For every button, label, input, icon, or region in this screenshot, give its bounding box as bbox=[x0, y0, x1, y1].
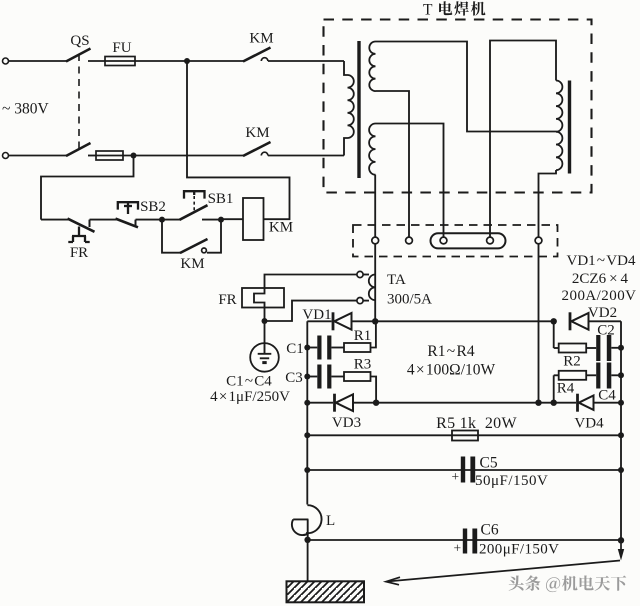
svg-text:R3: R3 bbox=[354, 357, 372, 373]
node C3 tap bbox=[304, 374, 310, 380]
svg-text:~ 380V: ~ 380V bbox=[2, 101, 50, 118]
svg-text:C3: C3 bbox=[285, 370, 303, 386]
label watermark 头条 @机电天下 (glyph outlines) bbox=[509, 575, 627, 592]
node C5 left bbox=[304, 467, 310, 473]
wire L2 to QS bbox=[9, 155, 67, 157]
svg-text:R2: R2 bbox=[563, 354, 581, 370]
wire QS to FU2 bbox=[88, 155, 96, 157]
transformer secondary upper winding bbox=[369, 42, 375, 92]
wire R2 branch from top node bbox=[553, 321, 555, 348]
capacitor C1 bbox=[317, 336, 331, 360]
svg-text:KM: KM bbox=[245, 125, 269, 141]
resistor R3 bbox=[344, 372, 371, 381]
wire QS to FU bbox=[88, 60, 105, 62]
switch QS pole 2 blade bbox=[66, 143, 91, 156]
node B bbox=[218, 217, 224, 223]
svg-text:T: T bbox=[423, 2, 433, 19]
node A bbox=[159, 217, 165, 223]
ground (case earthing symbol in circle) bbox=[250, 343, 279, 372]
svg-text:SB1: SB1 bbox=[208, 191, 234, 207]
node junction row1 bbox=[184, 58, 190, 64]
pushbutton SB1 (NO) blade bbox=[180, 205, 208, 220]
wire terminal 5 down to bottom rectifier rail bbox=[538, 244, 540, 403]
wire R2 to C2 bbox=[586, 347, 596, 349]
wire C5 row bbox=[307, 469, 621, 471]
capacitor C5 (electrolytic) bbox=[461, 457, 475, 483]
svg-text:QS: QS bbox=[70, 33, 89, 49]
wire VD2 to right rail corner bbox=[589, 320, 622, 322]
capacitor C6 (electrolytic) bbox=[463, 529, 477, 554]
wire KM aux branch right bbox=[207, 220, 221, 253]
transformer primary winding leads bbox=[344, 61, 348, 75]
wire SB1 to node B bbox=[202, 219, 221, 221]
wire R4 to C4 bbox=[586, 374, 596, 376]
wire VD3 across to VD4 bbox=[353, 402, 576, 404]
contactor contact KM1 fixed terminal arc bbox=[261, 58, 268, 61]
svg-text:FR: FR bbox=[70, 245, 88, 261]
pushbutton SB1 stem (dashed) bbox=[193, 196, 195, 211]
wire KM aux branch left bbox=[162, 220, 181, 253]
current transformer TA terminal b stub bbox=[363, 300, 369, 302]
resistor R5 bbox=[452, 431, 478, 441]
svg-text:2CZ6 × 4: 2CZ6 × 4 bbox=[572, 271, 629, 287]
svg-text:L: L bbox=[326, 513, 335, 529]
wire terminal 1 down through TA to node N1 bbox=[374, 244, 376, 321]
wire rail to C3 bbox=[307, 376, 317, 378]
svg-text:R1 ~ R4: R1 ~ R4 bbox=[427, 343, 474, 360]
svg-text:C2: C2 bbox=[597, 323, 615, 339]
svg-text:300/5A: 300/5A bbox=[387, 292, 432, 308]
node C1 tap bbox=[304, 345, 310, 351]
diode VD1 bbox=[333, 312, 352, 330]
terminal 3 bbox=[440, 237, 447, 244]
contactor contact KM2 fixed terminal arc bbox=[261, 152, 268, 155]
wire secondary upper top lead to reactor tap bbox=[376, 42, 557, 132]
contactor contact KM2 blade bbox=[243, 142, 271, 156]
svg-text:VD1 ~ VD4: VD1 ~ VD4 bbox=[567, 253, 636, 269]
terminal 2 bbox=[406, 237, 413, 244]
svg-text:FR: FR bbox=[218, 292, 236, 308]
switch QS pole 1 blade bbox=[66, 49, 91, 62]
wire FR stub bbox=[41, 219, 69, 221]
node right rail / bottom rail bbox=[618, 400, 624, 406]
node top of right branch bbox=[551, 318, 557, 324]
capacitor C4 bbox=[596, 363, 611, 389]
arrow electrode to workpiece (long diagonal) bbox=[387, 561, 620, 582]
contactor coil KM bbox=[243, 198, 264, 240]
wire control return: KM coil right up to row1 junction bbox=[187, 61, 290, 219]
svg-text:VD4: VD4 bbox=[574, 416, 604, 432]
node junction row2 bbox=[131, 153, 137, 159]
relay FR heater element box bbox=[242, 288, 284, 308]
transformer secondary lower winding bbox=[369, 124, 375, 175]
terminal 5 bbox=[535, 237, 542, 244]
wire L1 to QS bbox=[9, 60, 67, 62]
wire C3 to R3 bbox=[331, 376, 344, 378]
arrow electrode output (down arrow at right rail) bbox=[620, 543, 622, 551]
svg-text:KM: KM bbox=[180, 256, 204, 272]
svg-text:TA: TA bbox=[387, 272, 406, 288]
svg-text:KM: KM bbox=[249, 31, 273, 47]
wire R1 to node N1 bbox=[371, 321, 376, 347]
wire reactor top lead to board terminal 4 bbox=[490, 41, 556, 238]
diode VD4 bbox=[578, 394, 594, 412]
relay FR heater conductor with jog bbox=[254, 288, 265, 321]
wire L to workpiece bbox=[307, 540, 309, 581]
svg-text:+: + bbox=[454, 541, 462, 556]
capacitor C3 bbox=[317, 365, 331, 389]
wire control feed: row2 junction down to control rail bbox=[41, 156, 134, 220]
node R5 left bbox=[304, 432, 310, 438]
welding machine enclosure (dashed box) bbox=[324, 20, 592, 193]
pushbutton SB2 (NC) blade bbox=[116, 219, 139, 228]
svg-text:C1 ~ C4: C1 ~ C4 bbox=[226, 374, 272, 390]
node VD3 tap bbox=[304, 400, 310, 406]
wire KM1 to transformer primary bbox=[268, 60, 344, 62]
terminal L1 (input phase 1) bbox=[3, 58, 9, 64]
wire FU2 to KM2 bbox=[123, 155, 244, 157]
wire secondary lower bottom lead to board terminal 1 bbox=[374, 175, 376, 237]
svg-text:VD2: VD2 bbox=[588, 305, 617, 321]
terminal L2 (input phase 2) bbox=[3, 153, 9, 159]
svg-text:50μF/150V: 50μF/150V bbox=[475, 473, 548, 489]
label title 电焊机 (glyph outlines) bbox=[439, 1, 485, 15]
svg-text:C1: C1 bbox=[286, 341, 304, 357]
current transformer TA terminal a stub bbox=[363, 274, 369, 276]
wire heater node down to ground capacitor bbox=[264, 321, 266, 343]
wire top rail left segment bbox=[307, 320, 331, 322]
resistor R1 bbox=[344, 343, 371, 352]
svg-text:SB2: SB2 bbox=[140, 199, 166, 215]
wire R3 to node N2 bbox=[371, 377, 377, 403]
node C2 right rail bbox=[618, 345, 624, 351]
contactor aux contact KM fixed terminal arc bbox=[202, 248, 207, 253]
node R5 right bbox=[618, 432, 624, 438]
svg-text:FU: FU bbox=[112, 40, 131, 56]
pushbutton SB2 actuator bbox=[118, 202, 138, 214]
wire heater node to TA terminal b bbox=[265, 301, 358, 321]
wire C4 to right rail bbox=[611, 374, 621, 376]
inductor L (iron-core choke) bbox=[306, 505, 322, 533]
node C5 right bbox=[618, 467, 624, 473]
svg-text:4 × 100Ω/10W: 4 × 100Ω/10W bbox=[407, 362, 496, 379]
svg-text:C5: C5 bbox=[480, 455, 498, 472]
fuse FU2 bbox=[96, 151, 123, 160]
reactor winding lower section bbox=[556, 132, 562, 170]
relay FR trip symbol bbox=[68, 227, 89, 243]
wire VD4 to right rail bbox=[594, 402, 622, 404]
svg-text:200A/200V: 200A/200V bbox=[562, 288, 637, 304]
wire KM2 to transformer primary bbox=[268, 155, 344, 157]
wire secondary upper bottom lead to board terminal 2 bbox=[376, 91, 410, 237]
wire SB2 to node A bbox=[136, 219, 163, 221]
terminal link strap (stadium around terminals 3-4) bbox=[431, 233, 506, 248]
node C6 right bbox=[618, 537, 624, 543]
wire VD1 to node N1 to right branch bbox=[352, 320, 554, 322]
capacitor C2 bbox=[596, 335, 611, 361]
node N1 (top of left rectifier branch) bbox=[372, 318, 378, 324]
wire R5 row bbox=[307, 434, 621, 436]
current transformer TA terminal a bbox=[357, 271, 363, 277]
current transformer TA secondary winding bbox=[369, 275, 375, 301]
reactor winding upper section bbox=[556, 81, 562, 132]
svg-text:R1: R1 bbox=[354, 328, 372, 344]
pushbutton SB1 actuator bbox=[184, 191, 205, 198]
pushbutton SB2 right terminal tick bbox=[135, 220, 137, 227]
wire secondary lower top lead to board terminal 3 bbox=[376, 124, 444, 238]
node board-5 wire joins bottom rail bbox=[535, 400, 541, 406]
svg-text:C4: C4 bbox=[598, 388, 616, 404]
transformer core (left) bbox=[357, 41, 360, 178]
terminal 4 bbox=[487, 237, 494, 244]
svg-text:200μF/150V: 200μF/150V bbox=[479, 542, 559, 558]
wire C6 row bbox=[308, 539, 621, 541]
wire TA terminal a to FR heater bbox=[265, 275, 358, 289]
svg-text:4 × 1μF/250V: 4 × 1μF/250V bbox=[210, 389, 290, 405]
wire node A to SB1 bbox=[162, 219, 181, 221]
svg-text:VD3: VD3 bbox=[332, 415, 361, 431]
svg-text:KM: KM bbox=[269, 220, 293, 236]
node L bottom / C6 row left bbox=[304, 537, 310, 543]
wire C2 to right rail bbox=[611, 347, 621, 349]
relay contact FR right terminal tick bbox=[89, 220, 91, 227]
svg-text:VD1: VD1 bbox=[302, 307, 331, 323]
current transformer TA terminal b bbox=[357, 298, 363, 304]
wire R4 branch from bottom node bbox=[553, 375, 555, 402]
wire left rectifier rail bbox=[306, 321, 308, 504]
switch QS linkage (dashed) bbox=[78, 54, 80, 150]
wire FR to SB2 bbox=[90, 219, 117, 221]
diode VD3 bbox=[335, 394, 354, 412]
resistor R4 bbox=[559, 371, 587, 380]
wire bottom rail left segment bbox=[307, 402, 333, 404]
wire node B to coil bbox=[221, 218, 243, 220]
node N2 bbox=[373, 400, 379, 406]
diode VD2 bbox=[570, 312, 589, 330]
terminal 1 bbox=[372, 237, 379, 244]
node C4 right rail bbox=[618, 372, 624, 378]
fuse FU1 bbox=[105, 57, 135, 66]
svg-text:R4: R4 bbox=[557, 381, 575, 397]
transformer primary winding bbox=[348, 75, 354, 138]
wire right rail bbox=[620, 321, 622, 540]
wire reactor bottom lead to board terminal 5 bbox=[539, 170, 557, 237]
node FR heater output bbox=[262, 318, 268, 324]
svg-text:C6: C6 bbox=[481, 522, 499, 539]
terminal board (dashed box) bbox=[353, 225, 558, 257]
reactor core (right) bbox=[568, 81, 571, 174]
svg-text:+: + bbox=[452, 469, 460, 484]
wire C1 to R1 bbox=[331, 347, 344, 349]
relay contact FR (NC) blade bbox=[68, 219, 95, 232]
resistor R2 bbox=[559, 344, 587, 353]
svg-text:R5 1k 20W: R5 1k 20W bbox=[436, 415, 517, 432]
contactor aux contact KM (NO self-hold) blade bbox=[180, 239, 208, 253]
wire FU1 to KM1 bbox=[135, 60, 244, 62]
node R4 branch joins bottom rail bbox=[551, 400, 557, 406]
wire rail to C1 bbox=[307, 347, 317, 349]
contactor contact KM1 blade bbox=[243, 48, 271, 62]
